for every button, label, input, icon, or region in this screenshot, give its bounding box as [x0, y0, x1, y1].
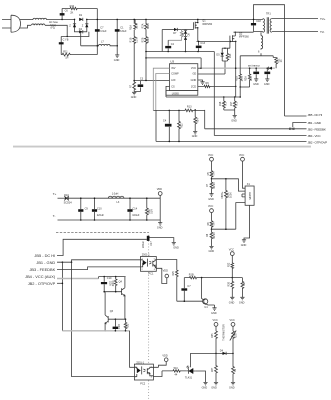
- resistor R23: [235, 74, 244, 87]
- resistor R10 2K: [70, 5, 98, 14]
- capacitor C9: [78, 198, 88, 220]
- wire CS rail: [166, 96, 240, 98]
- wire gate network: [198, 61, 225, 74]
- ground R27: [239, 297, 245, 304]
- resistor R8 49.9K: [206, 229, 216, 246]
- wire Q4 base line: [104, 291, 121, 293]
- ground sense: [231, 116, 237, 123]
- ground output filter: [157, 220, 163, 230]
- diode D5 gate: [216, 48, 230, 61]
- optocoupler U6 2501-1: [134, 361, 153, 385]
- ground R37: [211, 382, 218, 389]
- wire startup left: [161, 30, 163, 52]
- connector JP1: [289, 123, 306, 130]
- svg-text:GND: GND: [192, 135, 198, 138]
- inductor L7: [97, 41, 116, 46]
- inductor choke L1 top winding: [33, 18, 47, 19]
- svg-text:R31: R31: [127, 323, 130, 328]
- resistor R17 sense: [230, 97, 238, 110]
- wire VCC pin: [198, 67, 202, 69]
- svg-text:PC1: PC1: [149, 273, 154, 276]
- diode D10 SCD34: [64, 194, 161, 205]
- svg-text:C14: C14: [133, 207, 138, 210]
- wire Q4 cluster top: [99, 277, 126, 279]
- svg-text:TV-: TV-: [320, 30, 325, 34]
- resistor R27: [241, 278, 246, 298]
- wire JB4 vcc: [214, 135, 306, 137]
- resistor R6 75K: [207, 221, 216, 230]
- capacitor C15: [253, 68, 259, 79]
- svg-text:GND: GND: [211, 312, 217, 315]
- svg-text:0.1: 0.1: [225, 102, 228, 106]
- svg-text:GND: GND: [231, 119, 237, 122]
- wire AC line2 plug to choke: [19, 25, 31, 28]
- power VCC chain B thermistor: [223, 319, 235, 341]
- transistor Q2 IRFP260: [230, 32, 249, 49]
- svg-text:VDD: VDD: [163, 270, 168, 273]
- svg-text:PC2: PC2: [140, 383, 145, 386]
- svg-text:R1B: R1B: [130, 37, 133, 42]
- diode D7: [162, 28, 193, 35]
- svg-text:C13: C13: [200, 42, 205, 45]
- wire X1 pins left: [242, 194, 245, 197]
- svg-text:GND: GND: [131, 96, 137, 99]
- wire right bulk rail: [96, 9, 98, 55]
- inductor TR1 aux winding: [258, 32, 263, 53]
- svg-text:GND: GND: [209, 250, 215, 253]
- ground GND pin: [198, 80, 205, 84]
- resistor R26: [228, 278, 234, 298]
- resistor R5 75K: [207, 171, 216, 179]
- diode D4b: [190, 350, 233, 355]
- transformer TR1: [263, 13, 272, 34]
- diode D1: [79, 14, 83, 21]
- svg-text:R2B: R2B: [141, 37, 144, 42]
- ground R38: [229, 382, 235, 389]
- svg-text:75K: 75K: [212, 221, 215, 226]
- power VDD: [157, 188, 162, 220]
- svg-text:1.0uH: 1.0uH: [112, 192, 119, 195]
- power VCC X1: [239, 154, 245, 188]
- resistor R31: [124, 319, 129, 331]
- resistor divider R1B: [130, 37, 139, 81]
- svg-text:R16: R16: [219, 101, 222, 106]
- svg-text:VCC: VCC: [208, 205, 213, 208]
- svg-text:VDD: VDD: [162, 354, 167, 357]
- wire X1 pin4: [236, 203, 245, 230]
- svg-text:R14: R14: [197, 118, 200, 123]
- wire Q3 base line: [108, 318, 125, 320]
- svg-text:R1A: R1A: [130, 25, 133, 30]
- svg-text:GND: GND: [191, 79, 197, 82]
- svg-text:TL431: TL431: [185, 377, 193, 380]
- isolation boundary dashed: [56, 232, 149, 234]
- power VDD opto2: [153, 354, 168, 367]
- svg-text:SCD34: SCD34: [64, 202, 73, 205]
- svg-text:R17: R17: [230, 101, 233, 106]
- power VCC lower feed: [227, 248, 234, 277]
- svg-text:GND: GND: [239, 302, 245, 305]
- junction dots filter: [80, 197, 148, 220]
- wire gray bottom rail: [62, 330, 129, 332]
- svg-text:R1B: R1B: [235, 76, 238, 81]
- resistor R24: [245, 67, 253, 87]
- svg-text:GND: GND: [264, 83, 270, 86]
- wire AC line1 plug to choke: [20, 19, 31, 21]
- ground TL431: [202, 382, 208, 389]
- resistor divider R1A: [130, 19, 139, 36]
- transformer TR1 snubber loop: [254, 5, 285, 116]
- svg-text:R2A: R2A: [245, 76, 248, 81]
- svg-text:JB5 - DC HI: JB5 - DC HI: [34, 253, 55, 258]
- svg-text:R26: R26: [228, 281, 231, 286]
- wire sense bottoms: [224, 110, 235, 115]
- resistor divider R2B: [141, 37, 150, 81]
- svg-text:0805+: 0805+: [221, 191, 224, 199]
- resistor R35: [211, 331, 218, 353]
- svg-text:620K: 620K: [147, 37, 150, 43]
- inductor L3 1.0uH: [108, 192, 124, 203]
- transistor Q4: [119, 277, 125, 320]
- svg-text:ZCD: ZCD: [191, 85, 196, 88]
- wire CS pin: [166, 86, 170, 97]
- capacitor C10b: [101, 277, 112, 292]
- svg-text:L6565: L6565: [172, 92, 180, 95]
- wire LFF line: [134, 80, 169, 82]
- svg-text:C10: C10: [97, 207, 102, 210]
- svg-text:JB1 - GND: JB1 - GND: [36, 260, 55, 265]
- svg-text:10K: 10K: [250, 76, 253, 81]
- svg-text:GND: GND: [208, 198, 214, 201]
- svg-text:JB2 - OTP/OVP: JB2 - OTP/OVP: [308, 140, 328, 144]
- ground Q1b: [211, 308, 217, 315]
- wire opto2 to TL431: [153, 371, 173, 377]
- diode D3: [82, 19, 89, 32]
- resistor R36 thermistor: [230, 331, 238, 354]
- resistor R37: [211, 353, 218, 382]
- IC X1 LEDB: [245, 183, 254, 205]
- svg-text:R35: R35: [211, 333, 214, 338]
- capacitor C6: [60, 9, 70, 20]
- capacitor C7b: [181, 278, 191, 302]
- svg-text:VCC: VCC: [230, 319, 235, 322]
- capacitor C1B: [113, 319, 121, 331]
- svg-text:TV+: TV+: [320, 17, 326, 21]
- resistor R16 sense: [219, 97, 227, 110]
- wire JB3 feedback: [205, 128, 307, 130]
- resistor R30: [145, 198, 153, 220]
- resistor R11 1R: [61, 50, 97, 59]
- svg-text:GND: GND: [229, 302, 235, 305]
- transistor Q1b: [177, 278, 215, 309]
- svg-text:INV: INV: [171, 67, 176, 70]
- resistor R2D 300K: [110, 277, 117, 292]
- resistor R13 horizontal: [185, 106, 205, 112]
- wire drain to primary: [234, 31, 254, 33]
- wire JB4 VCC vertical: [213, 52, 215, 136]
- svg-text:49.9K: 49.9K: [213, 232, 216, 239]
- optocoupler U5 2501-1: [141, 254, 157, 276]
- wire TL431 cathode up: [189, 353, 191, 367]
- svg-text:VDD: VDD: [157, 188, 162, 191]
- svg-text:300K: 300K: [112, 280, 115, 286]
- resistor R25: [156, 260, 178, 302]
- svg-text:GND: GND: [253, 83, 259, 86]
- ground R26: [229, 297, 235, 304]
- ground under R14: [192, 132, 198, 139]
- wire source node: [197, 40, 236, 42]
- svg-text:R12: R12: [181, 123, 184, 128]
- wire JB1 branch to opto2: [72, 262, 135, 376]
- resistor R20: [275, 58, 283, 69]
- capacitor C17 220uF: [142, 236, 174, 248]
- svg-text:VCC: VCC: [208, 154, 213, 157]
- resistor R38: [232, 353, 238, 382]
- svg-text:JB2 - OTP/OVP: JB2 - OTP/OVP: [28, 281, 56, 286]
- svg-text:IRFP260: IRFP260: [202, 23, 212, 26]
- svg-text:GND: GND: [211, 387, 217, 390]
- resistor R7b 49.9K: [206, 179, 216, 194]
- svg-text:JB4 - VCC: JB4 - VCC: [308, 134, 322, 138]
- svg-text:C YB: C YB: [63, 39, 69, 42]
- svg-text:T-: T-: [53, 214, 56, 218]
- diode D4: [75, 28, 87, 33]
- capacitor C7 3.3uF: [95, 26, 107, 33]
- svg-text:U3: U3: [170, 59, 174, 63]
- svg-text:R32: R32: [227, 262, 230, 267]
- wire JB1 branch down: [61, 262, 63, 331]
- svg-text:GND: GND: [202, 387, 208, 390]
- power VCC chain A: [213, 319, 218, 331]
- svg-text:C18: C18: [256, 20, 261, 23]
- diode D2: [69, 19, 76, 32]
- svg-text:JB5 - DC HI: JB5 - DC HI: [308, 113, 323, 117]
- svg-text:C1B: C1B: [118, 324, 121, 329]
- ground divider A: [208, 194, 214, 201]
- wire bridge to minus rail: [81, 32, 98, 46]
- ground divider B: [209, 246, 215, 253]
- svg-text:LFF: LFF: [171, 79, 176, 82]
- ground C16: [264, 79, 270, 86]
- op-amp controller U3 L6565: [166, 59, 198, 95]
- svg-text:T+: T+: [53, 192, 57, 196]
- capacitor C18: [251, 20, 261, 26]
- power VDD opto1: [163, 270, 169, 278]
- wire gray net vcc: [202, 67, 275, 69]
- svg-text:C10: C10: [107, 277, 112, 280]
- resistor R14 to ground: [194, 110, 200, 131]
- capacitor C1 6.8uF: [115, 19, 127, 54]
- wire tap B: [212, 228, 236, 230]
- svg-text:620K: 620K: [147, 23, 150, 29]
- svg-text:1R: 1R: [65, 56, 68, 59]
- resistor R2B 100K: [221, 178, 232, 229]
- capacitor C16: [264, 68, 270, 79]
- AC plug P1: [2, 15, 21, 32]
- inductor choke L1 bottom winding: [32, 24, 46, 25]
- svg-text:1.2M: 1.2M: [135, 37, 138, 43]
- separator line: [13, 146, 311, 148]
- svg-text:100K: 100K: [229, 192, 232, 198]
- ground under R7: [131, 92, 137, 99]
- resistor R9 ZCD: [198, 82, 236, 87]
- svg-text:JB4 - VCC (AUX): JB4 - VCC (AUX): [25, 274, 56, 279]
- svg-text:R13: R13: [187, 106, 192, 109]
- resistor R4: [168, 30, 185, 41]
- ground X1: [241, 205, 250, 247]
- wire long vertical to CS rail: [235, 41, 237, 97]
- svg-text:0.1: 0.1: [236, 102, 239, 106]
- svg-text:3.3uF: 3.3uF: [100, 30, 107, 33]
- svg-text:2K: 2K: [70, 11, 73, 14]
- svg-text:LEDB: LEDB: [248, 192, 252, 199]
- wire COMP feedback: [156, 74, 170, 111]
- svg-text:TR1: TR1: [266, 13, 271, 16]
- svg-text:VCC: VCC: [213, 319, 218, 322]
- capacitor C4: [163, 110, 172, 141]
- diode D8 zener: [184, 30, 190, 52]
- power VCC divider B: [208, 205, 213, 221]
- svg-text:75K: 75K: [212, 171, 215, 176]
- svg-text:JB3 - FEEDBK: JB3 - FEEDBK: [29, 267, 55, 272]
- svg-text:JB3 - FEEDBK: JB3 - FEEDBK: [308, 128, 327, 132]
- resistor R1B: [184, 274, 242, 279]
- svg-text:GND: GND: [173, 246, 179, 249]
- capacitor C2: [165, 40, 174, 51]
- ground under C1: [114, 55, 120, 62]
- wire AC line1 choke to bridge: [31, 18, 75, 20]
- svg-text:4.7K: 4.7K: [241, 76, 244, 81]
- resistor R7: [129, 81, 135, 92]
- power VCC divider A: [208, 154, 213, 171]
- svg-text:GD: GD: [192, 73, 196, 76]
- svg-text:IRFP260: IRFP260: [239, 36, 249, 39]
- resistor R33 510: [173, 367, 187, 376]
- wire aux supply rail: [146, 51, 214, 53]
- svg-text:VCC: VCC: [191, 67, 196, 70]
- wire AC line2 to bridge bottom: [45, 25, 89, 36]
- wire aux return rect: [240, 53, 276, 74]
- svg-text:R37: R37: [211, 367, 214, 372]
- svg-text:51R: 51R: [150, 209, 153, 214]
- svg-text:THERMISTOR: THERMISTOR: [223, 324, 226, 341]
- svg-text:R2B: R2B: [235, 333, 238, 338]
- svg-text:100uF: 100uF: [132, 214, 140, 217]
- wire TL431 anode ground: [196, 371, 206, 382]
- svg-text:GND: GND: [229, 387, 235, 390]
- junction dots dividers: [133, 19, 135, 21]
- svg-text:JB1 - GND: JB1 - GND: [308, 121, 322, 125]
- svg-text:1.2M: 1.2M: [135, 23, 138, 29]
- capacitor C13: [196, 41, 206, 51]
- transistor Q3: [105, 292, 114, 331]
- svg-text:(F1): (F1): [51, 27, 56, 30]
- svg-text:Q4: Q4: [119, 280, 123, 283]
- diode D6 on gray net: [269, 67, 273, 70]
- svg-text:GND: GND: [241, 244, 247, 247]
- svg-text:220uF: 220uF: [142, 240, 145, 248]
- wire under resistors: [240, 86, 249, 88]
- capacitor C YB: [59, 37, 69, 55]
- svg-text:1K: 1K: [280, 59, 283, 62]
- wire TV minus: [272, 31, 318, 33]
- svg-text:C17: C17: [150, 241, 153, 246]
- wire feedback to JB3: [204, 110, 206, 129]
- svg-text:VCC: VCC: [229, 248, 234, 251]
- svg-text:CS: CS: [171, 85, 175, 88]
- resistor divider R2A: [141, 19, 150, 36]
- wire tap A to X1: [212, 179, 246, 191]
- ground C15: [253, 79, 259, 86]
- shunt regulator TL431: [185, 366, 196, 380]
- wire comp network rail: [153, 109, 185, 111]
- ground C17: [172, 243, 179, 250]
- svg-text:ant trans p: ant trans p: [248, 65, 260, 68]
- resistor R15 gate: [226, 48, 232, 61]
- capacitor C3 on LFF: [134, 78, 144, 92]
- wire INV feedback: [153, 68, 169, 110]
- capacitor C14 100uF: [127, 198, 139, 220]
- capacitor C10 220uF: [92, 198, 104, 220]
- isolation boundary dotted vertical: [148, 232, 150, 400]
- svg-text:220uF: 220uF: [97, 214, 105, 217]
- wire JB5 from snubber: [285, 115, 307, 117]
- node DC plus rail: [87, 18, 263, 20]
- wire JB2 otp: [156, 110, 307, 141]
- resistor R12: [178, 110, 184, 141]
- svg-text:COMP: COMP: [171, 73, 179, 76]
- wire to opto2 pin1: [130, 331, 135, 368]
- svg-text:R1B: R1B: [189, 274, 194, 277]
- svg-text:49.9K: 49.9K: [213, 182, 216, 189]
- wire opto1 pin4 to vdd: [156, 268, 167, 283]
- svg-text:GND: GND: [114, 59, 120, 62]
- wire TV plus: [272, 18, 318, 20]
- svg-text:R25: R25: [172, 271, 175, 276]
- svg-text:R15: R15: [229, 53, 232, 58]
- svg-text:VCC: VCC: [239, 154, 244, 157]
- svg-text:R2A: R2A: [141, 23, 144, 28]
- svg-text:R11: R11: [63, 50, 68, 53]
- junction dots input section: [61, 19, 118, 47]
- transistor Q1 IRFP260: [194, 19, 213, 41]
- wire comp tap: [146, 58, 201, 68]
- svg-text:GND: GND: [157, 227, 163, 230]
- svg-text:6.8uF: 6.8uF: [120, 30, 127, 33]
